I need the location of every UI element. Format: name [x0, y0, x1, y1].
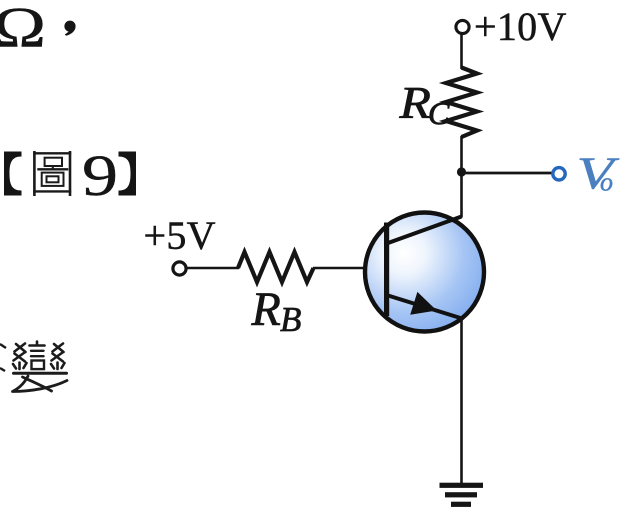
page text 變 (simplified drawing) [13, 342, 68, 392]
svg-text:Ω: Ω [0, 0, 46, 59]
page text fullwidth comma (centered style) [64, 21, 75, 36]
node: collector junction [457, 167, 466, 176]
wire: +5V terminal to RB [187, 267, 240, 270]
svg-text:+10V: +10V [474, 4, 567, 49]
caption glyph 圖 inner strokes [37, 158, 68, 186]
caption glyph 圖 outer box [33, 151, 71, 196]
wire: collector node down to transistor [460, 171, 463, 218]
caption bracket 【 [4, 152, 22, 196]
transistor Q1 collector lead [388, 217, 462, 244]
wire: RC to collector node [460, 136, 463, 173]
svg-text:R: R [398, 78, 431, 128]
svg-text:9: 9 [82, 143, 118, 208]
svg-text:B: B [280, 300, 301, 339]
transistor Q1 emitter lead [388, 296, 462, 319]
wire: +10V terminal to RC [460, 34, 463, 69]
ground symbol [440, 483, 484, 507]
svg-text:C: C [428, 95, 450, 131]
transistor Q1 emitter arrow [410, 292, 437, 315]
terminal Vo [553, 168, 565, 180]
terminal +10V [456, 20, 469, 33]
svg-text:o: o [600, 168, 613, 197]
resistor RC [446, 68, 477, 138]
transistor Q1 base bar [384, 223, 389, 317]
svg-text:R: R [251, 283, 281, 336]
terminal +5V [173, 262, 186, 275]
caption bracket 】 [119, 152, 137, 196]
page text fragment: right tips of cut character (不) at left edge [0, 344, 6, 371]
svg-text:V: V [577, 149, 620, 199]
wire: RB to transistor base [313, 267, 388, 270]
resistor RB [238, 252, 314, 282]
svg-text:+5V: +5V [144, 213, 216, 258]
wire: node to Vo terminal [462, 172, 552, 175]
transistor Q1 body [365, 213, 484, 332]
wire: emitter to ground [460, 317, 463, 485]
